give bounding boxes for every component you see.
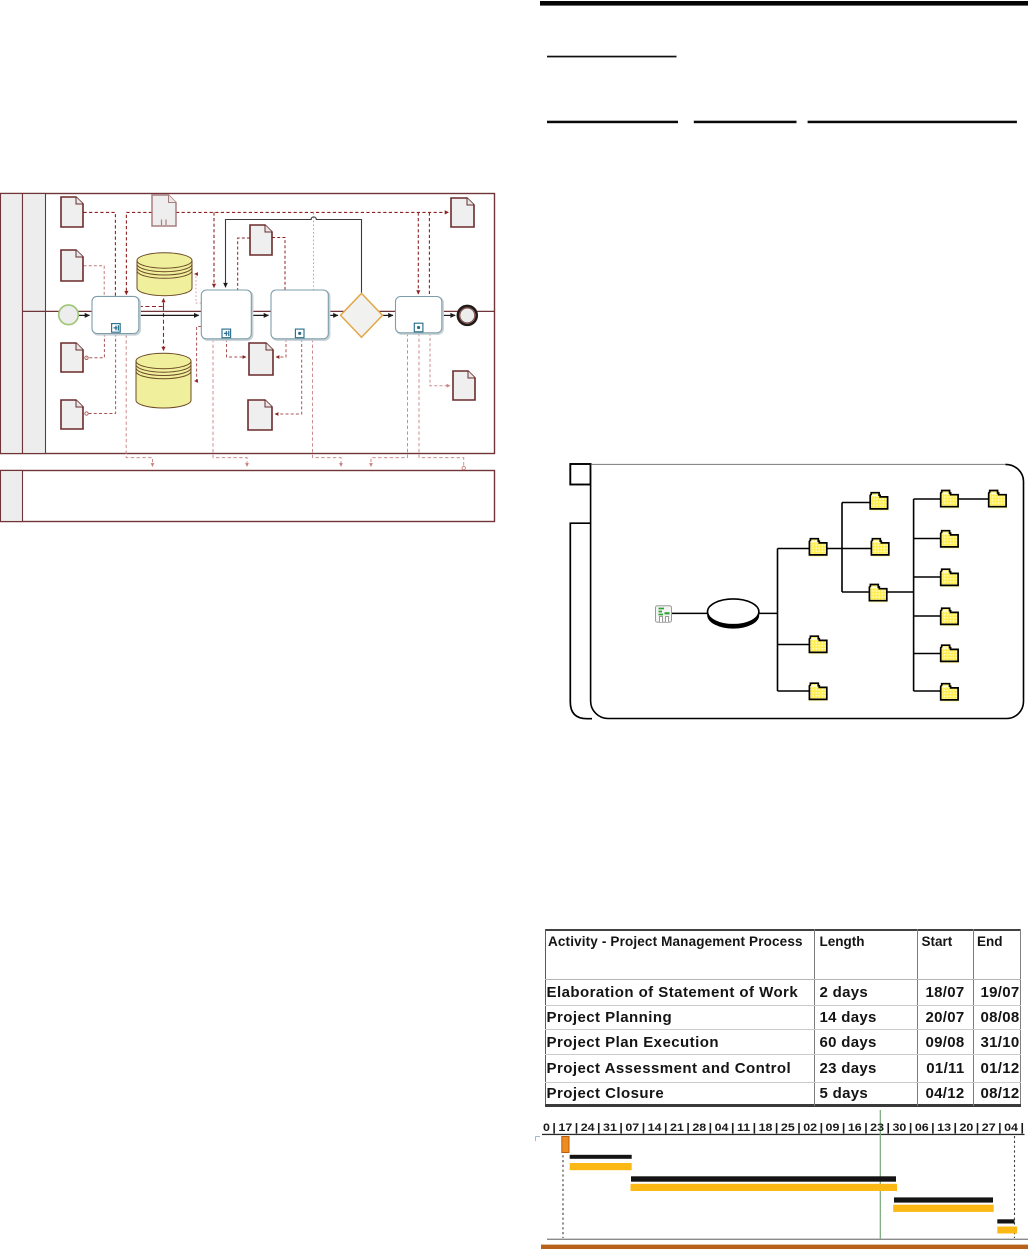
tree link ellipse to spine1 — [759, 612, 778, 614]
sequence flow T3 to gateway — [328, 314, 338, 316]
cylinder C2 (data store) — [136, 353, 191, 408]
rule mid — [547, 56, 677, 58]
gantt scale underline — [542, 1134, 1025, 1135]
association rail doc D2 right toward tasks T2/T4 and doc D3 — [176, 211, 449, 213]
association doc D5 to task T1 top — [84, 266, 105, 296]
bar4 black — [894, 1197, 993, 1202]
rule bottom a — [547, 121, 678, 124]
folder child1 — [809, 539, 827, 557]
container back tab 1 — [570, 464, 590, 485]
gantt right dotted gridline — [1014, 1136, 1016, 1238]
table row 5 — [547, 1085, 665, 1102]
bar4 yellow — [893, 1205, 994, 1212]
table header text — [548, 934, 803, 949]
container back tab 2 — [570, 523, 592, 719]
folder f1pp — [941, 491, 959, 509]
bridge flow task T3 to pool P2 — [313, 339, 342, 467]
task T2 — [201, 290, 252, 340]
bridge flow task T1 to pool P2 — [126, 335, 152, 467]
association task T3 bottom to doc D8 right — [276, 339, 286, 357]
end event — [458, 306, 477, 325]
doc D4 — [250, 225, 272, 255]
milestone orange marker task1 — [562, 1137, 569, 1153]
association task T3 bottom to doc D9 — [275, 339, 302, 414]
association doc D4 left side to task T2 top — [238, 238, 250, 290]
doc D6 — [61, 343, 83, 372]
root record icon — [656, 606, 672, 623]
bar5 black — [997, 1219, 1014, 1223]
root ellipse — [707, 599, 759, 629]
table column rules — [814, 929, 815, 1106]
folder child3 — [809, 683, 827, 701]
start event — [59, 305, 79, 325]
association task T4 bottom to doc D10 — [430, 333, 450, 386]
data association task T2 to cylinder C2 — [195, 327, 202, 382]
doc D9 — [248, 400, 272, 430]
rule bottom b — [694, 121, 797, 124]
gantt date scale labels — [543, 1122, 1024, 1134]
association drop to task T4 top (arrow) — [417, 212, 419, 294]
task T1 — [92, 296, 140, 334]
spine1 and branches — [778, 549, 810, 692]
folder f2p — [871, 539, 889, 557]
association rail from doc D2 down into task T1 — [126, 212, 152, 294]
bar5 yellow — [997, 1227, 1017, 1234]
bridge flow task T4 to pool P2 left arrow — [371, 333, 408, 467]
f1pp to f7pp rail — [958, 498, 989, 500]
cylinder C1 (data store) — [137, 253, 192, 296]
spine2 and branches — [842, 503, 870, 593]
table row 1 — [547, 984, 799, 1001]
gantt bottom gray line — [547, 1239, 1028, 1240]
gateway G1 — [341, 293, 383, 337]
association doc D4 right side to task T3 top — [272, 238, 285, 291]
sequence flow start to T1 — [78, 314, 89, 316]
bar3 black — [631, 1176, 896, 1181]
child1 to f2p rail — [827, 548, 871, 550]
bottom orange strip — [541, 1245, 1028, 1249]
folder f2pp — [941, 531, 959, 549]
bridge flow task T4 to pool P2 circle end — [419, 333, 464, 468]
pool P2 (lower pool) — [1, 471, 495, 522]
folder f3p — [869, 585, 887, 603]
association task T2 bottom to doc D8 — [227, 339, 247, 357]
sequence flow T4 to end — [442, 314, 455, 316]
gantt today green line — [879, 1110, 881, 1239]
container front rounded rect — [591, 464, 1024, 718]
association drop to task T2 top — [213, 212, 215, 287]
folder f1p — [870, 493, 888, 511]
folder f5pp — [941, 645, 959, 663]
doc D1 — [61, 197, 83, 227]
spine3 and branches — [914, 499, 940, 691]
rule bottom c — [808, 121, 1017, 124]
doc D2 (lighter) — [152, 195, 176, 226]
folder f6pp — [941, 684, 959, 702]
data association task T1 to cylinders C1 C2 — [139, 306, 164, 308]
table row 4 — [547, 1060, 792, 1077]
folder child2 — [809, 636, 827, 654]
tiny blue corner mark — [536, 1137, 541, 1142]
f3p to spine3 rail — [888, 591, 914, 593]
table outer border — [545, 929, 1022, 931]
association drop to task T4 top second — [428, 212, 430, 296]
doc D7 — [61, 400, 83, 429]
lane divider of pool P1 — [23, 310, 496, 312]
bar3 yellow — [631, 1184, 898, 1191]
task T3 — [271, 290, 330, 340]
table row 2 — [547, 1009, 673, 1026]
table row rules — [545, 979, 1022, 980]
association pink dotted down to task T3 top — [313, 213, 315, 290]
folder f4pp — [941, 608, 959, 626]
message flow task T1 bottom to doc D6 — [87, 334, 105, 358]
rule thick top — [540, 1, 1028, 6]
sequence flow gateway to T4 — [383, 314, 394, 316]
doc D5 — [61, 250, 83, 281]
doc D10 — [453, 371, 475, 400]
bar2 black — [570, 1155, 632, 1159]
folder f7pp — [989, 491, 1007, 509]
association: doc D1 to horizontal rail y212 — [84, 212, 116, 296]
folder f3pp — [941, 569, 959, 587]
doc D8 — [249, 343, 273, 375]
table row 3 — [547, 1034, 719, 1051]
message flow task T1 bottom to doc D7 — [87, 334, 116, 414]
data association task T2 to cylinder C1 dotted — [195, 274, 202, 303]
doc D3 — [451, 198, 474, 227]
bar2 yellow — [570, 1163, 632, 1170]
pool P1 (main process pool) — [1, 194, 495, 454]
sequence flow T1 to T2 — [139, 314, 199, 316]
gantt left dotted gridline — [562, 1136, 564, 1238]
task T4 — [396, 297, 444, 335]
sequence flow T2 to T3 — [251, 314, 268, 316]
tree link root icon to ellipse — [672, 612, 708, 614]
loop-back flow gateway to T2 — [226, 217, 362, 293]
bridge flow task T2 to pool P2 — [213, 339, 247, 467]
